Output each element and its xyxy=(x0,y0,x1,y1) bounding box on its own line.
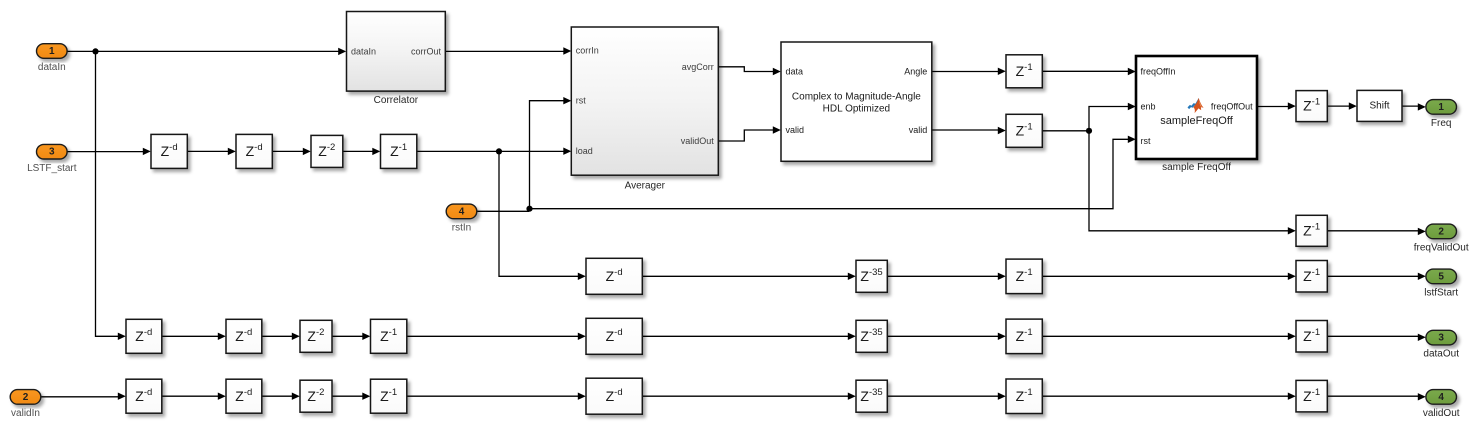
svg-text:4: 4 xyxy=(459,206,465,217)
wire Z-1 -> node D xyxy=(1042,130,1089,132)
svg-text:dataIn: dataIn xyxy=(38,62,66,73)
wire Correlator.corrOut -> Averager.corrIn xyxy=(445,50,564,52)
delay block dataOut output delay (Z^-1) xyxy=(1296,321,1327,353)
svg-text:enb: enb xyxy=(1141,102,1156,112)
wire sampleFreqOff.freqOffOut -> Z-1 xyxy=(1257,106,1288,108)
delay block dataOut row delay 2 (Z^-d) xyxy=(226,319,262,353)
svg-text:4: 4 xyxy=(1438,392,1444,403)
wire Z-1 -> lstfStart port xyxy=(1327,275,1418,277)
svg-text:3: 3 xyxy=(49,147,55,158)
block Complex to Magnitude-Angle HDL Optimized xyxy=(781,42,932,161)
wire Z-1 -> Shift xyxy=(1327,105,1349,107)
wire ComplexToMagAngle.Angle -> Z-1 xyxy=(932,71,999,73)
inport 4 rstIn xyxy=(446,204,477,219)
svg-text:corrIn: corrIn xyxy=(576,45,599,55)
wire Z-2 -> Z-1 (LSTF row) xyxy=(343,150,373,152)
svg-text:1: 1 xyxy=(1438,102,1444,113)
delay block dataOut row delay 4 (Z^-1) xyxy=(371,319,407,353)
delay block validIn row delay Z-1 (Z^-1) xyxy=(1006,379,1042,414)
wire Averager.avgCorr -> ComplexToMagAngle.data xyxy=(718,67,773,72)
delay block dataOut row wide delay (Z^-d) xyxy=(586,318,642,354)
wire Z-d -> Z-2 (dataOut row) xyxy=(262,335,293,337)
delay block validIn row delay 4 (Z^-1) xyxy=(371,379,407,413)
wire ComplexToMagAngle.valid -> Z-1 xyxy=(932,129,999,131)
delay block validIn row delay Z-35 (Z^-35) xyxy=(856,380,887,412)
wire Z-d -> Z-d (dataOut row) xyxy=(162,335,219,337)
delay block LSTF row delay 1 (Z^-d) xyxy=(151,134,187,168)
delay block dataOut row delay 1 (Z^-d) xyxy=(126,319,162,353)
svg-text:HDL Optimized: HDL Optimized xyxy=(823,103,890,114)
delay block dataOut row delay Z-35 (Z^-35) xyxy=(856,320,887,352)
delay block validIn row delay 3 (Z^-2) xyxy=(300,380,332,412)
wire Z-d -> Z-35 (validIn row) xyxy=(642,395,848,397)
svg-text:2: 2 xyxy=(23,392,29,403)
svg-text:2: 2 xyxy=(1438,226,1444,237)
delay block LSTF row delay 3 (Z^-2) xyxy=(311,135,343,167)
delay block validOut output delay (Z^-1) xyxy=(1296,380,1327,412)
outport 4 validOut xyxy=(1426,390,1457,405)
wire Z-35 -> Z-1 (lstfStart row) xyxy=(887,275,998,277)
svg-text:validOut: validOut xyxy=(1423,408,1460,419)
svg-text:Angle: Angle xyxy=(904,67,927,77)
wire Z-d -> Z-2 (LSTF row) xyxy=(272,150,303,152)
outport 2 freqValidOut xyxy=(1426,224,1457,239)
delay block lstfStart row delay Z-35 (Z^-35) xyxy=(856,260,887,292)
wire LSTF branch down to lstfStart delay chain xyxy=(499,151,579,276)
wire Z-1 -> Averager.load xyxy=(417,150,564,152)
wire rst branch up to Averager.rst xyxy=(530,101,565,209)
wire Shift -> Freq port xyxy=(1402,105,1418,107)
svg-text:Averager: Averager xyxy=(625,180,666,191)
svg-text:dataOut: dataOut xyxy=(1423,349,1459,360)
svg-text:Correlator: Correlator xyxy=(374,95,419,106)
svg-text:corrOut: corrOut xyxy=(411,46,442,56)
svg-text:avgCorr: avgCorr xyxy=(682,62,714,72)
delay block LSTF row delay 4 (Z^-1) xyxy=(381,134,417,168)
wire Z-2 -> Z-1 (validIn row) xyxy=(332,395,363,397)
svg-text:Shift: Shift xyxy=(1369,101,1389,112)
svg-text:load: load xyxy=(576,146,593,156)
wire Z-2 -> Z-1 (dataOut row) xyxy=(332,335,363,337)
delay block freqOffOut delay (Z^-1) xyxy=(1296,91,1327,122)
wire dataIn branch down to dataOut delay chain xyxy=(96,51,119,336)
delay block lstfStart row wide delay (Z^-d) xyxy=(586,258,642,294)
svg-text:1: 1 xyxy=(49,46,55,57)
outport 1 Freq xyxy=(1426,100,1457,115)
svg-text:rst: rst xyxy=(576,96,586,106)
inport 3 LSTF_start xyxy=(37,144,68,159)
wire Z-d -> Z-35 (dataOut row) xyxy=(642,335,848,337)
wire node D down to freqValidOut delay xyxy=(1089,131,1289,231)
delay block dataOut row delay Z-1 (Z^-1) xyxy=(1006,319,1042,354)
subsystem block Averager xyxy=(571,27,718,175)
svg-text:freqValidOut: freqValidOut xyxy=(1414,242,1469,253)
wire Z-1 -> Z-1 (lstfStart row) xyxy=(1042,275,1288,277)
svg-text:3: 3 xyxy=(1438,333,1444,344)
svg-text:validIn: validIn xyxy=(11,408,40,419)
junction node B (LSTF branch) xyxy=(496,148,502,154)
wire Z-35 -> Z-1 (dataOut row) xyxy=(887,335,998,337)
outport 5 lstfStart xyxy=(1426,269,1457,284)
inport 1 dataIn xyxy=(37,44,68,59)
delay block Angle path delay (Z^-1) xyxy=(1006,55,1042,88)
wire Z-d -> Z-2 (validIn row) xyxy=(262,395,293,397)
svg-text:lstfStart: lstfStart xyxy=(1424,287,1458,298)
MATLAB logo icon xyxy=(1188,98,1204,113)
junction node A (dataIn branch) xyxy=(92,48,98,54)
delay block freqValidOut delay (Z^-1) xyxy=(1296,215,1327,246)
junction node C (rst branch) xyxy=(526,206,532,212)
svg-text:rst: rst xyxy=(1141,136,1151,146)
svg-text:LSTF_start: LSTF_start xyxy=(27,163,77,174)
wire rstIn -> sampleFreqOff.rst xyxy=(477,139,1128,211)
outport 3 dataOut xyxy=(1426,330,1457,345)
delay block validIn row wide delay (Z^-d) xyxy=(586,378,642,414)
wire Z-d -> Z-35 (lstfStart row) xyxy=(642,275,848,277)
wire Z-1 -> dataOut port xyxy=(1327,335,1418,337)
delay block lstfStart row delay Z-1 (Z^-1) xyxy=(1006,259,1042,294)
svg-text:rstIn: rstIn xyxy=(452,223,471,234)
wire Z-1 -> Z-1 (dataOut row) xyxy=(1042,335,1288,337)
junction node D (valid branch) xyxy=(1086,128,1092,134)
wire node D up to sampleFreqOff.enb xyxy=(1089,107,1129,131)
svg-text:dataIn: dataIn xyxy=(351,46,376,56)
wire Z-1 -> validOut port xyxy=(1327,395,1418,397)
delay block valid path delay (Z^-1) xyxy=(1006,114,1042,147)
block Shift xyxy=(1357,90,1402,121)
svg-text:freqOffIn: freqOffIn xyxy=(1141,67,1176,77)
delay block validIn row delay 1 (Z^-d) xyxy=(126,379,162,413)
wire Averager.validOut -> ComplexToMagAngle.valid xyxy=(718,130,773,141)
svg-text:data: data xyxy=(786,67,804,77)
delay block lstfStart output delay (Z^-1) xyxy=(1296,261,1327,293)
wire Z-1 -> Z-1 (validIn row) xyxy=(1042,395,1288,397)
wire Z-d -> Z-d (LSTF row) xyxy=(187,150,228,152)
delay block LSTF row delay 2 (Z^-d) xyxy=(236,134,272,168)
wire validIn -> Z-d xyxy=(41,396,118,398)
wire Z-1 -> freqValidOut port xyxy=(1327,230,1418,232)
delay block validIn row delay 2 (Z^-d) xyxy=(226,379,262,413)
wire Z-35 -> Z-1 (validIn row) xyxy=(887,395,998,397)
svg-text:valid: valid xyxy=(786,125,805,135)
inport 2 validIn xyxy=(10,390,41,405)
wire Z-1 -> sampleFreqOff.freqOffIn xyxy=(1042,70,1128,72)
svg-text:Freq: Freq xyxy=(1431,118,1452,129)
delay block dataOut row delay 3 (Z^-2) xyxy=(300,320,332,352)
wire Z-1 -> Z-d (validIn row) xyxy=(407,395,579,397)
svg-text:Complex to Magnitude-Angle: Complex to Magnitude-Angle xyxy=(792,91,921,102)
wire dataIn -> Correlator.dataIn xyxy=(67,50,339,52)
svg-text:sample FreqOff: sample FreqOff xyxy=(1162,162,1231,173)
subsystem block Correlator xyxy=(347,12,446,92)
svg-text:freqOffOut: freqOffOut xyxy=(1211,102,1253,112)
svg-text:valid: valid xyxy=(909,125,928,135)
svg-text:sampleFreqOff: sampleFreqOff xyxy=(1160,115,1233,127)
wire LSTF_start -> Z-d xyxy=(67,151,144,153)
svg-text:validOut: validOut xyxy=(681,136,715,146)
wire Z-1 -> Z-d (dataOut row) xyxy=(407,335,579,337)
MATLAB Function block sample FreqOff xyxy=(1136,56,1257,159)
wire Z-d -> Z-d (validIn row) xyxy=(162,395,219,397)
svg-text:5: 5 xyxy=(1438,271,1444,282)
